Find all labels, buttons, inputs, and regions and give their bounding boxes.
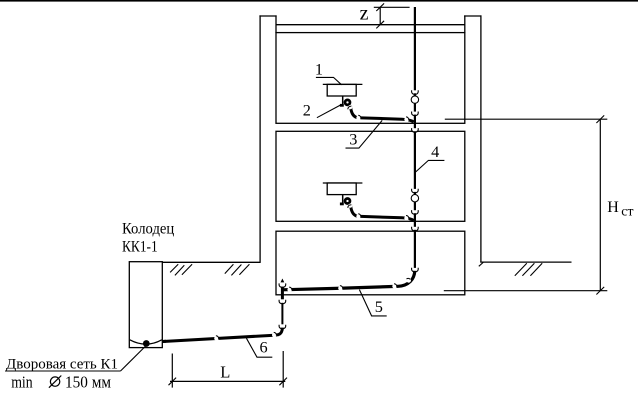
riser bottom socket <box>413 268 417 271</box>
svg-text:Дворовая сеть К1: Дворовая сеть К1 <box>6 357 118 373</box>
svg-text:4: 4 <box>431 142 439 161</box>
drop stub thick <box>281 287 284 300</box>
svg-text:ст: ст <box>621 205 633 220</box>
ground hatch group B <box>225 264 250 275</box>
riser socket below slab <box>413 128 417 131</box>
L tick right <box>279 378 287 386</box>
Hst top extension line <box>445 118 608 120</box>
dimension z horizontal line <box>374 6 410 8</box>
bell on collector mid <box>392 284 397 289</box>
svg-text:z: z <box>360 3 369 25</box>
svg-text:1: 1 <box>315 59 323 78</box>
leader for label 1 <box>316 77 342 84</box>
left parapet inner edge <box>275 15 277 33</box>
room floor1 rectangle <box>276 231 465 295</box>
yard pipe 6 <box>163 335 277 341</box>
drop stub socket <box>281 283 285 286</box>
drop bend to yard pipe <box>275 328 283 336</box>
L tick left <box>169 378 177 386</box>
floor2 fixture group (copy of floor3) <box>323 183 419 231</box>
bell gap near riser <box>404 117 409 122</box>
floor3 fixture group <box>323 84 419 132</box>
diameter symbol <box>50 377 59 386</box>
roof slab top line <box>276 24 465 26</box>
drop thin pipe <box>281 303 283 325</box>
manhole rectangle <box>129 262 162 348</box>
dimension L left extension <box>171 354 173 388</box>
sink drain line <box>342 96 344 104</box>
room floor3 rectangle <box>276 33 465 124</box>
dimension L right extension <box>282 351 284 388</box>
svg-text:L: L <box>220 362 230 381</box>
svg-text:Н: Н <box>607 199 619 216</box>
svg-text:150 мм: 150 мм <box>65 373 111 392</box>
riser revision circle <box>411 96 418 103</box>
bell gap on trap outlet <box>348 105 352 109</box>
riser socket below revision <box>413 112 417 115</box>
svg-text:5: 5 <box>375 297 383 316</box>
manhole tray <box>130 340 162 344</box>
dimension z tick bottom <box>376 21 384 29</box>
Hst tick bottom <box>596 287 604 295</box>
cleanout triangle on drop stub <box>281 279 285 283</box>
small hatch at right wall <box>479 262 483 266</box>
bell on yard pipe mid <box>214 336 219 341</box>
svg-text:2: 2 <box>303 101 311 120</box>
dimension z vertical line <box>379 7 381 24</box>
drop socket lower <box>281 325 285 328</box>
riser bottom bend into collector <box>394 271 415 287</box>
svg-text:min: min <box>11 373 33 392</box>
Hst dimension vertical line <box>599 119 601 291</box>
drop socket below floor <box>281 300 285 303</box>
underline of Dvorovaya <box>5 370 121 372</box>
leader for label 5 <box>359 290 386 316</box>
svg-text:6: 6 <box>260 338 268 357</box>
leader to manhole dot <box>121 346 146 371</box>
leader for label 2 <box>317 105 340 118</box>
bell on collector left <box>287 287 292 292</box>
collector pipe floor1 <box>281 286 396 289</box>
top border line <box>0 0 638 2</box>
bell on yard pipe bend <box>272 333 277 338</box>
sewer riser pipe <box>414 7 416 268</box>
bell on collector mid2 <box>338 286 343 291</box>
ground line left (manhole to building) <box>162 261 260 263</box>
Hst bottom extension line <box>444 290 608 292</box>
leader for label 4 <box>415 160 445 172</box>
sink counter line <box>323 83 363 85</box>
right parapet inner edge <box>464 15 466 33</box>
branch pipe to riser <box>358 118 414 122</box>
dimension L line <box>170 380 285 382</box>
leader for label 3 <box>346 120 383 148</box>
right parapet top <box>464 15 481 17</box>
Hst tick top <box>596 115 604 123</box>
riser socket above revision <box>413 90 417 93</box>
bell gap after elbow <box>356 116 361 121</box>
ground hatch group A <box>170 264 192 275</box>
trap outlet elbow <box>351 106 359 118</box>
leader for label 6 <box>246 338 272 357</box>
sink basin <box>327 84 356 96</box>
building left outer wall <box>259 15 261 262</box>
ground hatch group C <box>515 263 542 276</box>
room floor2 rectangle <box>276 131 465 221</box>
svg-text:КК1-1: КК1-1 <box>122 238 158 255</box>
left parapet top <box>259 15 276 17</box>
manhole pipe outlet dot <box>143 340 150 347</box>
trap U-loop <box>340 104 344 107</box>
building right outer wall <box>480 15 482 262</box>
bell on bend <box>406 278 411 283</box>
svg-text:Колодец: Колодец <box>122 220 174 237</box>
ground line right of building <box>480 261 571 263</box>
dimension z tick top <box>376 3 384 11</box>
yard pipe into manhole <box>162 340 166 343</box>
svg-text:3: 3 <box>349 130 357 149</box>
